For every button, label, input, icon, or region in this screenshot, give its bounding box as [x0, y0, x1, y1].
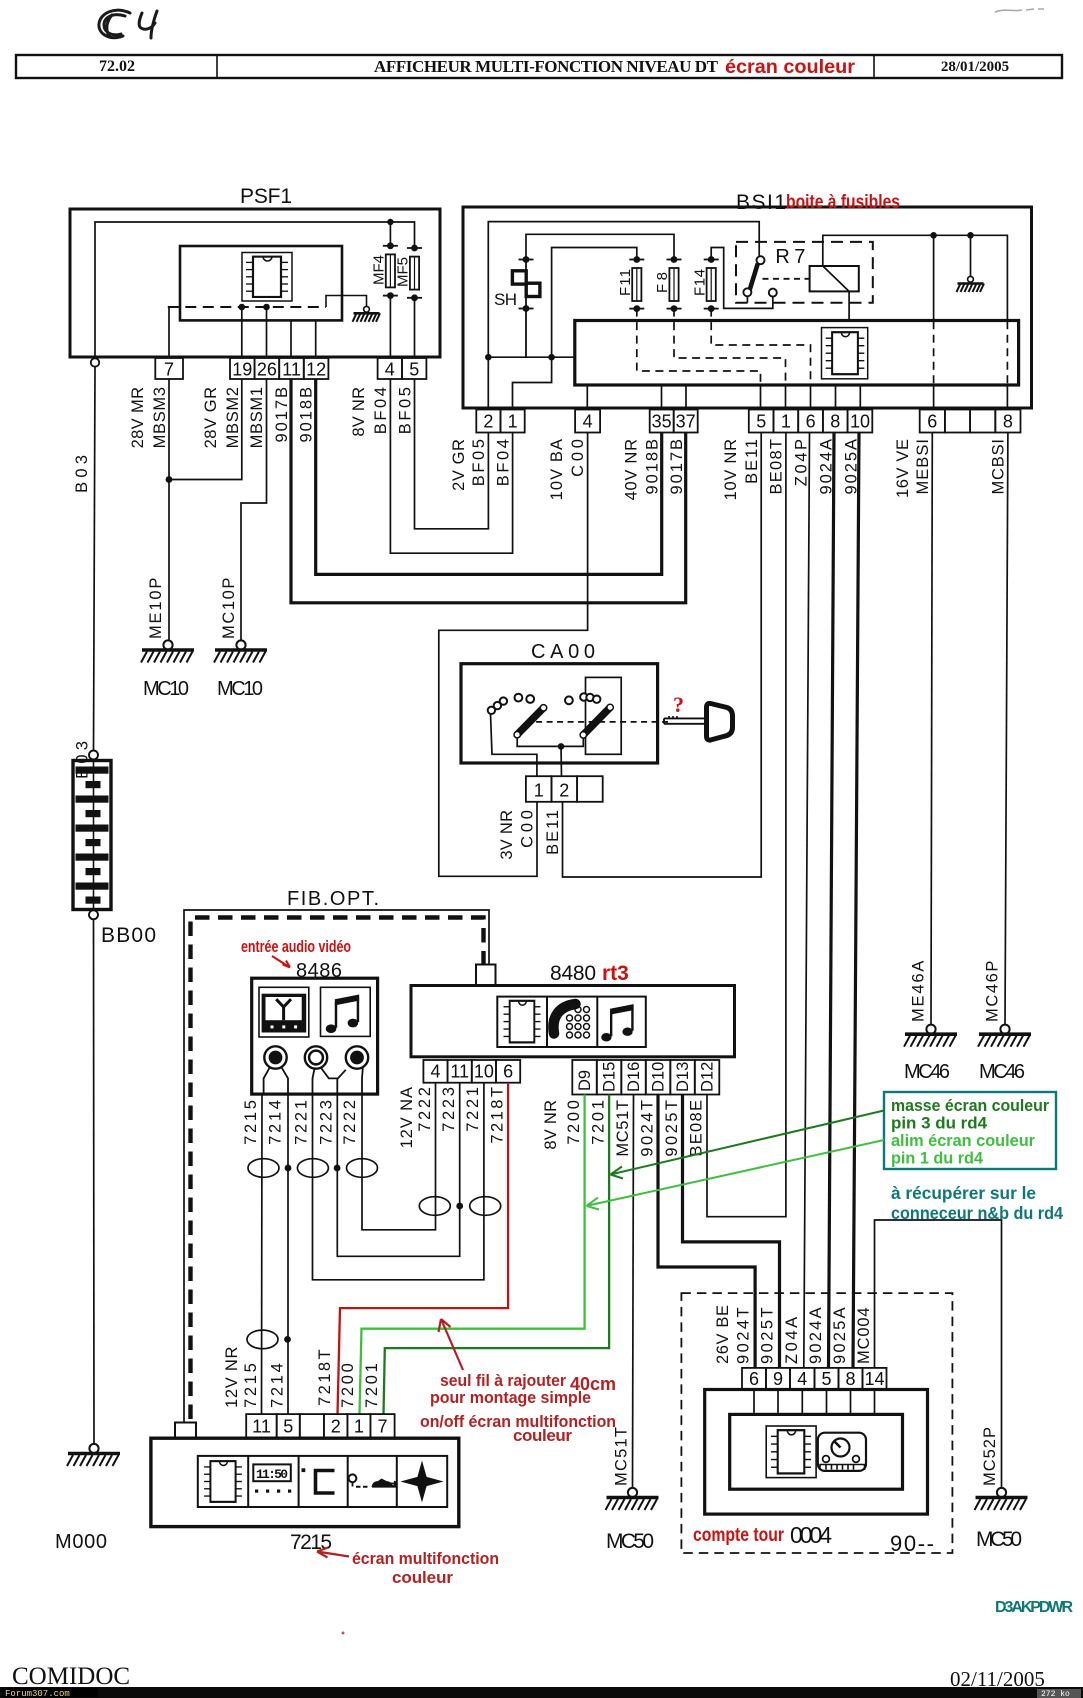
svg-text:5: 5	[283, 1417, 293, 1437]
wire BE08T BSI-1b to 8480-D12	[707, 433, 786, 1217]
svg-text:CA00: CA00	[531, 641, 595, 663]
svg-text:entrée audio vidéo: entrée audio vidéo	[241, 937, 351, 956]
svg-text:MC51T: MC51T	[613, 1427, 631, 1486]
svg-text:BF04: BF04	[495, 439, 513, 486]
svg-text:5: 5	[756, 412, 766, 432]
svg-text:à récupérer sur le: à récupérer sur le	[891, 1183, 1036, 1203]
svg-text:9018B: 9018B	[644, 439, 662, 495]
svg-text:9017B: 9017B	[273, 387, 291, 443]
svg-text:8V NR: 8V NR	[542, 1100, 560, 1150]
svg-text:6: 6	[927, 412, 937, 432]
labels under 8480 left pins	[398, 1087, 506, 1148]
svg-text:F11: F11	[617, 269, 634, 296]
twisted pair marker row3 (7215/7214)	[247, 1330, 278, 1349]
svg-text:MEBSI: MEBSI	[914, 439, 932, 495]
svg-text:SH: SH	[494, 290, 517, 309]
switch blade left	[518, 708, 544, 734]
wire left contacts to pin 1	[491, 714, 537, 776]
twisted pair markers row2	[419, 1197, 500, 1216]
wire BE11 BSI-5 to CA00-2	[563, 433, 762, 878]
fuse F14	[707, 268, 716, 301]
wire 7221 to 8480-10	[313, 1083, 484, 1280]
icon strip 8480	[497, 997, 646, 1047]
wire blades common to pin 2	[517, 738, 583, 747]
inner frame right switch	[586, 677, 622, 754]
svg-text:COMIDOC: COMIDOC	[12, 1663, 130, 1690]
wire bus A	[488, 222, 759, 358]
svg-text:BF04: BF04	[372, 387, 390, 434]
svg-text:11: 11	[252, 1417, 271, 1437]
wire pin1 riser	[513, 357, 552, 409]
svg-text:écran couleur: écran couleur	[725, 57, 856, 78]
svg-text:BE08T: BE08T	[768, 439, 786, 495]
svg-text:9018B: 9018B	[298, 387, 316, 443]
svg-text:1: 1	[534, 781, 544, 801]
svg-text:0004: 0004	[790, 1522, 832, 1548]
box 0004	[705, 1390, 928, 1515]
wire MBSM1	[241, 379, 267, 641]
svg-text:11: 11	[450, 1062, 469, 1082]
wire BB00 to M000	[93, 919, 96, 1444]
annotation arrow bright green	[587, 1140, 885, 1210]
svg-text:D3AKPDWR: D3AKPDWR	[995, 1599, 1073, 1616]
svg-text:AFFICHEUR MULTI-FONCTION NIVEA: AFFICHEUR MULTI-FONCTION NIVEAU DT	[374, 57, 719, 76]
svg-text:8: 8	[1003, 412, 1013, 432]
star icon	[400, 1461, 443, 1503]
svg-text:35: 35	[652, 412, 672, 432]
svg-text:?: ?	[673, 692, 684, 717]
svg-text:MC51T: MC51T	[614, 1100, 632, 1157]
connector circles	[264, 1046, 286, 1068]
relay coil R7	[810, 266, 859, 291]
svg-text:MBSM3: MBSM3	[151, 387, 169, 448]
svg-text:12V NA: 12V NA	[398, 1087, 416, 1148]
ic U2 BSI	[822, 328, 868, 379]
red annotation seul fil	[420, 1371, 616, 1445]
wire 9025T thick	[683, 1095, 780, 1368]
contact chain left	[488, 707, 495, 714]
svg-text:7218T: 7218T	[316, 1349, 334, 1406]
svg-text:MC50: MC50	[606, 1530, 654, 1553]
node dashed dots	[239, 304, 246, 311]
relay switch blade	[750, 264, 758, 291]
svg-text:D16: D16	[625, 1062, 643, 1092]
svg-text:ME46A: ME46A	[910, 961, 928, 1022]
svg-text:pin 3 du rd4: pin 3 du rd4	[891, 1115, 988, 1133]
wire F14 to R7 contact	[711, 248, 773, 309]
wire BF05 PSF1-5 to BSI-2	[415, 379, 489, 529]
dashed zone 90	[681, 1293, 952, 1553]
inner module box	[180, 246, 342, 320]
svg-text:PSF1: PSF1	[240, 185, 292, 208]
svg-text:272 ko: 272 ko	[1041, 1690, 1070, 1698]
fuse MF4	[386, 254, 395, 287]
svg-text:9024A: 9024A	[807, 1307, 825, 1364]
svg-text:6: 6	[503, 1062, 513, 1082]
wire 7218T red	[338, 1083, 509, 1414]
wire pin19 riser	[241, 307, 243, 358]
svg-text:MC46: MC46	[904, 1061, 950, 1083]
svg-text:14: 14	[864, 1369, 884, 1389]
svg-text:MCBSI: MCBSI	[990, 439, 1008, 495]
svg-text:9024T: 9024T	[735, 1307, 753, 1364]
labels under 8486	[242, 1100, 359, 1145]
svg-text:BE08E: BE08E	[687, 1100, 705, 1157]
svg-text:ME10P: ME10P	[147, 578, 165, 639]
svg-text:couleur: couleur	[513, 1426, 572, 1445]
svg-text:9017B: 9017B	[668, 439, 686, 495]
svg-text:D15: D15	[601, 1062, 619, 1092]
wire 7223 to 8480-11	[337, 1083, 459, 1257]
icon music note 8486	[321, 987, 371, 1036]
0004 pin boxes	[742, 1368, 887, 1390]
wire 7215	[261, 1094, 264, 1414]
svg-text:C00: C00	[519, 810, 537, 848]
svg-text:4: 4	[583, 412, 593, 432]
svg-text:2: 2	[331, 1417, 341, 1437]
wire 9024A BSI-8 down	[829, 433, 835, 1368]
svg-text:26: 26	[257, 360, 277, 380]
wire pin7 riser	[168, 307, 170, 358]
icon music note 8480	[601, 1004, 633, 1041]
wire C00 BSI-4 to CA00-1	[439, 433, 588, 877]
svg-text:BF05: BF05	[470, 439, 488, 486]
gauge icon	[818, 1433, 866, 1471]
stray mark	[342, 1632, 345, 1635]
svg-text:7: 7	[377, 1417, 387, 1437]
svg-text:MBSM1: MBSM1	[248, 387, 266, 448]
wire BF04 PSF1-4 to BSI-1	[390, 379, 512, 553]
8480 D pin boxes	[572, 1060, 719, 1095]
svg-text:26V BE: 26V BE	[714, 1305, 732, 1364]
svg-text:28/01/2005: 28/01/2005	[941, 59, 1009, 75]
svg-text:pour montage simple: pour montage simple	[430, 1388, 591, 1407]
wire pin5 riser	[414, 298, 416, 358]
svg-text:MC46P: MC46P	[984, 961, 1002, 1022]
CA00 pin boxes	[526, 776, 603, 802]
wire pin26 riser	[266, 307, 268, 358]
wire left low bus	[488, 356, 575, 358]
teal info box	[884, 1092, 1056, 1169]
connector to 8480	[476, 965, 496, 987]
ic icon 7215	[204, 1461, 242, 1502]
svg-text:FIB.OPT.: FIB.OPT.	[287, 888, 379, 910]
svg-text:12V NR: 12V NR	[223, 1347, 241, 1408]
svg-text:couleur: couleur	[392, 1568, 453, 1587]
svg-text:8V NR: 8V NR	[350, 387, 368, 437]
svg-text:10: 10	[474, 1062, 494, 1082]
svg-text:6: 6	[749, 1369, 759, 1389]
svg-text:D9: D9	[576, 1070, 594, 1091]
wire MCBSI	[1005, 433, 1008, 1025]
svg-text:7: 7	[164, 360, 174, 380]
wire pin4 riser	[389, 296, 391, 358]
svg-text:MC46: MC46	[979, 1061, 1025, 1083]
svg-text:2: 2	[483, 412, 493, 432]
svg-text:rt3: rt3	[602, 962, 629, 985]
wire pin11 riser	[290, 320, 292, 358]
wire pin12 riser	[315, 320, 317, 358]
svg-text:MC10: MC10	[143, 678, 189, 700]
box BSI1	[463, 207, 1032, 408]
svg-text:1: 1	[354, 1417, 364, 1437]
wire internal top bus	[95, 222, 415, 361]
inner module box BSI	[575, 321, 1019, 386]
ground MC10 (ME10P)	[141, 640, 194, 662]
wire MEBSI inside	[933, 235, 935, 321]
wire bus B	[526, 234, 674, 259]
dashed key axis	[526, 721, 668, 723]
ground MC10 (MC10P)	[214, 640, 267, 662]
svg-text:5: 5	[821, 1369, 831, 1389]
icon video/TV	[259, 987, 309, 1037]
svg-text:11:50: 11:50	[256, 1467, 288, 1482]
7215 pin boxes	[246, 1414, 394, 1438]
contact chain right	[565, 696, 573, 704]
wire MC004 to MC52P	[875, 1220, 1002, 1488]
svg-text:4: 4	[430, 1062, 440, 1082]
wire B03	[94, 367, 96, 751]
svg-text:28V MR: 28V MR	[129, 387, 147, 448]
wire 7214	[287, 1094, 289, 1414]
fuse MF5	[410, 257, 419, 290]
faint scribble top right	[995, 9, 1044, 12]
svg-text:7218T: 7218T	[488, 1087, 506, 1144]
wire MC51T	[633, 1095, 634, 1488]
labels under 8480 D pins	[542, 1100, 705, 1157]
wire 7200 bright green	[360, 1095, 585, 1415]
svg-text:9025T: 9025T	[663, 1100, 681, 1157]
svg-text:D10: D10	[650, 1062, 668, 1092]
svg-text:72.02: 72.02	[99, 58, 135, 75]
svg-text:MF4: MF4	[371, 255, 388, 285]
svg-text:MC10: MC10	[217, 678, 263, 700]
svg-text:M000: M000	[55, 1531, 107, 1553]
svg-text:6: 6	[806, 412, 816, 432]
icon phone	[553, 1004, 575, 1034]
svg-text:Forum307.com: Forum307.com	[5, 1689, 70, 1698]
svg-text:1: 1	[508, 412, 518, 432]
pin stubs below module	[587, 385, 1007, 410]
ground internal BSI	[970, 235, 972, 277]
node B03 terminal circle	[91, 358, 99, 366]
wire 9025A BSI-10 down	[853, 433, 859, 1368]
wire 9017B PSF1-11 to BSI-37	[291, 379, 686, 603]
BSI pin boxes	[476, 410, 1020, 433]
svg-text:boite à fusibles: boite à fusibles	[786, 192, 900, 213]
wire 9018B PSF1-12 to BSI-35	[316, 379, 662, 574]
svg-text:3V NR: 3V NR	[498, 810, 516, 860]
svg-text:D12: D12	[699, 1062, 717, 1092]
box PSF1	[70, 209, 440, 357]
key symbol	[664, 716, 706, 724]
svg-text:Z04A: Z04A	[783, 1317, 801, 1364]
footer black bar	[0, 1687, 1083, 1698]
relay link dashed	[763, 278, 810, 280]
svg-text:9: 9	[773, 1369, 783, 1389]
svg-text:pin 1 du rd4: pin 1 du rd4	[891, 1150, 984, 1168]
svg-text:BE11: BE11	[544, 810, 562, 855]
svg-text:alim écran couleur: alim écran couleur	[891, 1132, 1036, 1150]
svg-text:9025A: 9025A	[831, 1307, 849, 1364]
annotation arrow dark green	[611, 1111, 885, 1179]
wire Z04P/Z04A BSI-6 down	[804, 433, 810, 1368]
wire MEBSI	[931, 433, 932, 1025]
clock icon	[253, 1464, 290, 1481]
wire coil output	[848, 291, 850, 321]
svg-text:MC50: MC50	[976, 1528, 1022, 1551]
svg-text:8: 8	[830, 412, 840, 432]
wire bus C	[552, 248, 637, 358]
svg-text:BSI1: BSI1	[736, 191, 786, 214]
header bar	[16, 55, 1062, 78]
svg-text:MBSM2: MBSM2	[224, 387, 242, 448]
svg-text:MC52P: MC52P	[981, 1427, 999, 1486]
svg-text:11: 11	[282, 360, 301, 380]
wire MBSM3	[168, 379, 170, 641]
svg-text:9024T: 9024T	[638, 1100, 656, 1157]
svg-text:90--: 90--	[890, 1531, 934, 1556]
labels above pins	[223, 1347, 381, 1408]
svg-text:9025T: 9025T	[759, 1307, 777, 1364]
C icon	[302, 1468, 306, 1472]
twisted pair markers row1	[248, 1159, 378, 1178]
wire pin2 riser	[487, 357, 489, 409]
svg-text:1: 1	[781, 412, 791, 432]
node join	[166, 476, 173, 483]
PSF1 pin boxes	[155, 358, 426, 379]
svg-text:8: 8	[845, 1369, 855, 1389]
svg-text:BE11: BE11	[743, 439, 761, 484]
wire coil top bus	[823, 235, 1008, 321]
pin stubs into 0004	[754, 1390, 875, 1415]
svg-text:compte tour: compte tour	[693, 1525, 785, 1546]
box 7215	[151, 1438, 459, 1526]
svg-text:MF5: MF5	[395, 257, 412, 287]
svg-text:2: 2	[559, 781, 569, 801]
icon strip 7215	[198, 1456, 447, 1507]
svg-text:8480: 8480	[550, 962, 596, 985]
svg-text:2V GR: 2V GR	[450, 439, 468, 491]
svg-text:16V VE: 16V VE	[894, 439, 912, 498]
svg-text:écran multifonction: écran multifonction	[352, 1549, 499, 1568]
wire MBSM2	[169, 379, 242, 480]
ic U1 PSF1	[246, 257, 288, 297]
fuse F11	[632, 268, 641, 301]
svg-text:40V NR: 40V NR	[623, 439, 641, 500]
ground internal PSF1	[364, 306, 370, 312]
svg-text:5: 5	[409, 360, 419, 380]
ground M000	[67, 1444, 120, 1466]
svg-text:Z04P: Z04P	[793, 439, 811, 486]
svg-text:B03: B03	[73, 455, 91, 493]
svg-text:12: 12	[306, 360, 326, 380]
svg-text:MC004: MC004	[855, 1307, 873, 1364]
svg-text:D13: D13	[674, 1062, 692, 1092]
svg-text:F14: F14	[691, 269, 708, 296]
relay R7 dashed enclosure	[736, 242, 873, 303]
connector to 7215	[175, 1423, 196, 1439]
svg-text:7215: 7215	[290, 1531, 332, 1554]
8480 left pin boxes	[423, 1060, 520, 1083]
shunt SH	[512, 260, 540, 358]
svg-text:4: 4	[385, 360, 395, 380]
svg-text:BF05: BF05	[397, 387, 415, 434]
PSF1 pin wire labels	[129, 387, 415, 448]
wire 7222 to 8480-4	[362, 1083, 436, 1230]
stub wires from connectors	[264, 1067, 363, 1094]
dashed internal link	[168, 306, 326, 308]
ic 0004	[766, 1426, 816, 1478]
node junction top bus / MF4	[387, 219, 393, 225]
svg-text:19: 19	[232, 360, 252, 380]
CA00 labels	[498, 810, 562, 860]
svg-text:C00: C00	[569, 439, 587, 477]
battery BB00	[89, 751, 98, 760]
icon ic 8480	[504, 1001, 541, 1043]
svg-text:conneceur n&b du rd4: conneceur n&b du rd4	[891, 1203, 1063, 1223]
svg-text:MC10P: MC10P	[220, 578, 238, 639]
BSI pin wire labels	[450, 439, 1008, 500]
handwritten C4 mark	[99, 10, 157, 38]
svg-text:8486: 8486	[296, 960, 342, 982]
svg-text:10: 10	[850, 412, 870, 432]
svg-text:masse écran couleur: masse écran couleur	[891, 1097, 1050, 1115]
svg-text:4: 4	[797, 1369, 807, 1389]
svg-text:10V NR: 10V NR	[722, 439, 740, 500]
dashed wires through module	[637, 309, 1008, 385]
0004 pin labels	[714, 1305, 873, 1364]
svg-text:28V GR: 28V GR	[202, 387, 220, 448]
svg-text:BB00: BB00	[101, 924, 156, 947]
key-car icon	[349, 1474, 357, 1482]
wire 9024T thick	[658, 1095, 755, 1368]
switch blade right	[584, 708, 610, 735]
wire 7201 dark green	[384, 1095, 610, 1415]
fuse F8	[669, 268, 678, 301]
svg-text:37: 37	[676, 412, 696, 432]
